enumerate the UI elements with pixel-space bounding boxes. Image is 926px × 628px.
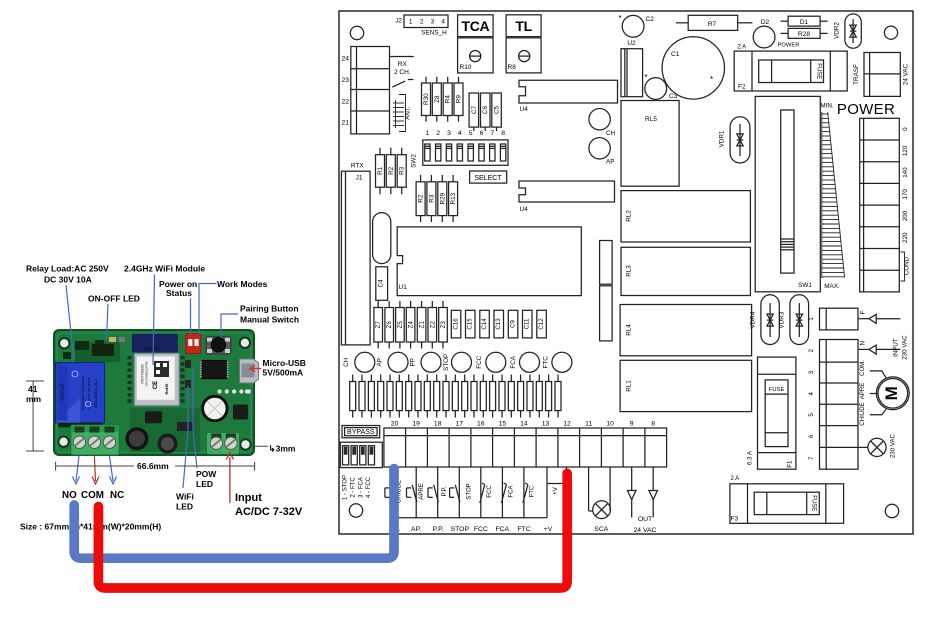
output terminals 2-7 (808, 340, 858, 470)
svg-text:2: 2 (420, 19, 424, 26)
svg-text:CH: CH (606, 130, 616, 137)
annotation input AC/DC (235, 492, 303, 518)
svg-text:4 - FCC: 4 - FCC (366, 476, 372, 498)
svg-text:ANT.: ANT. (405, 106, 412, 120)
svg-text:RL1: RL1 (626, 380, 633, 392)
svg-text:VDR1: VDR1 (719, 130, 726, 147)
motor M (859, 360, 909, 426)
DIP switch bypass 4 positions (340, 442, 382, 467)
svg-text:6.3 A: 6.3 A (747, 450, 754, 465)
annotation micro-usb (263, 358, 306, 378)
svg-text:R8: R8 (508, 64, 517, 71)
svg-text:10A 250VAC 10A 125VAC: 10A 250VAC 10A 125VAC (81, 375, 85, 411)
POWER title (837, 101, 895, 118)
svg-text:D1: D1 (800, 19, 809, 26)
diode D2 with POWER led label (753, 19, 799, 49)
IC U1 (397, 227, 581, 296)
svg-text:23: 23 (341, 77, 349, 84)
svg-text:COM.: COM. (859, 360, 866, 376)
terminal block NO COM NC (71, 425, 119, 455)
svg-text:R13: R13 (450, 192, 457, 204)
svg-text:APRE: APRE (418, 483, 425, 500)
svg-text:FUSE: FUSE (769, 387, 785, 393)
svg-text:AC/DC 7-32V: AC/DC 7-32V (235, 506, 303, 518)
svg-text:INPUT: INPUT (893, 338, 900, 357)
svg-text:FUSE: FUSE (811, 495, 817, 511)
svg-text:Z2: Z2 (429, 321, 436, 329)
PCB mounting holes (58, 338, 250, 450)
capacitor C2 (619, 14, 655, 37)
svg-text:22: 22 (341, 98, 349, 105)
varistor VDR4 (750, 295, 780, 345)
svg-text:Input: Input (235, 492, 262, 504)
svg-text:CE: CE (153, 381, 159, 389)
connector J2 SENS_H (395, 15, 448, 37)
svg-text:F3: F3 (731, 516, 739, 523)
svg-text:LED: LED (196, 479, 213, 489)
svg-text:8: 8 (651, 420, 655, 427)
svg-text:R28: R28 (798, 31, 810, 38)
svg-text:PP: PP (410, 358, 417, 366)
svg-text:6: 6 (480, 130, 484, 137)
svg-text:FTC: FTC (517, 526, 530, 533)
svg-text:11: 11 (585, 420, 592, 427)
svg-text:C16: C16 (453, 318, 460, 330)
mounting hole bottom-left (349, 504, 362, 517)
switch contact near RX (392, 80, 413, 88)
capacitors C16 C15 C14 C13 C9 C11 C12 (451, 310, 546, 338)
crystal oscillator (373, 213, 391, 264)
svg-text:↳3mm: ↳3mm (269, 444, 296, 454)
bottom terminal labels (389, 526, 553, 533)
svg-text:SELECT: SELECT (474, 175, 502, 182)
svg-text:Size : 67mm(L)*41mm(W)*20mm(H): Size : 67mm(L)*41mm(W)*20mm(H) (20, 522, 161, 532)
label SELECT (470, 171, 507, 183)
svg-text:230 VAC: 230 VAC (902, 335, 909, 360)
fuse F1 6.3A (747, 357, 796, 469)
svg-text:3 - FCA: 3 - FCA (358, 477, 364, 498)
relay RL1 (620, 360, 752, 411)
svg-text:APRE: APRE (859, 383, 866, 400)
svg-text:16: 16 (477, 420, 485, 427)
svg-text:Relay Load:AC 250V: Relay Load:AC 250V (26, 264, 109, 274)
varistor VDR3 (779, 295, 809, 345)
zener diodes Z7 Z6 Z5 Z4 Z1 Z2 Z3 (374, 301, 447, 349)
capacitor C3 (645, 78, 678, 100)
relay RL2 (621, 191, 750, 242)
lamp 230VAC (858, 433, 897, 458)
svg-text:C14: C14 (481, 318, 488, 330)
resistor R7 (676, 15, 753, 30)
svg-text:AP: AP (606, 159, 614, 166)
svg-text:R1: R1 (377, 166, 384, 175)
BYPASS label box (342, 426, 380, 438)
svg-text:D2: D2 (761, 19, 770, 26)
terminal block input (206, 432, 239, 454)
svg-text:RL5: RL5 (645, 116, 657, 123)
svg-text:5V/500mA: 5V/500mA (263, 368, 304, 378)
diode D1 (781, 16, 828, 26)
output terminal 1 (808, 308, 858, 330)
svg-text:2 CH.: 2 CH. (394, 69, 411, 76)
resistors R30 Z8 R4 R9 (422, 77, 464, 122)
annotation power on status (159, 279, 197, 298)
svg-text:7: 7 (490, 130, 494, 137)
svg-text:2.4GHz WiFi Module: 2.4GHz WiFi Module (124, 264, 205, 274)
svg-text:Status: Status (166, 288, 192, 298)
svg-text:C1: C1 (671, 51, 680, 58)
svg-text:TCA: TCA (461, 18, 489, 34)
capacitor C1 (645, 37, 725, 99)
svg-text:RL3: RL3 (626, 265, 633, 277)
arrow COM (92, 456, 99, 484)
components above relay (63, 340, 104, 359)
svg-text:Z5: Z5 (397, 321, 404, 329)
resistors R2 R3 R29 R13 (416, 175, 458, 222)
arrow NO (73, 456, 80, 484)
svg-text:F2: F2 (738, 84, 746, 91)
annotation work modes (217, 279, 268, 289)
svg-text:RTX: RTX (351, 163, 365, 170)
svg-text:3: 3 (808, 370, 815, 374)
svg-text:P.P.: P.P. (441, 486, 448, 496)
svg-text:C2: C2 (646, 16, 655, 23)
transformer connector TRASF 24VAC (853, 53, 910, 97)
svg-text:FUSE: FUSE (816, 63, 822, 79)
pairing pushbutton (206, 337, 231, 354)
INPUT 230 VAC label (893, 335, 909, 360)
svg-text:R10: R10 (460, 64, 472, 71)
svg-text:1: 1 (426, 130, 430, 137)
svg-text:SCA: SCA (594, 526, 608, 533)
svg-text:VDR4: VDR4 (750, 311, 757, 328)
svg-text:3: 3 (431, 19, 435, 26)
svg-text:CH: CH (343, 357, 350, 367)
svg-text:mm: mm (26, 394, 42, 404)
svg-text:220: 220 (902, 232, 909, 243)
svg-text:FTC: FTC (542, 356, 549, 369)
line N with arrow (859, 340, 901, 354)
svg-text:FCC: FCC (486, 485, 493, 498)
svg-text:Pairing Button: Pairing Button (240, 304, 299, 314)
mounting hole top-left (350, 26, 363, 39)
IC U4 upper (519, 80, 618, 113)
svg-text:4: 4 (441, 19, 445, 26)
small leds (92, 337, 191, 388)
relay RL5 (621, 101, 679, 187)
annotation 2.4GHz wifi module (124, 264, 205, 274)
svg-text:SW1: SW1 (798, 282, 812, 289)
terminal strip 20-8 (384, 428, 667, 467)
svg-text:R7: R7 (708, 21, 717, 28)
svg-text:18: 18 (434, 420, 442, 427)
svg-text:FCA: FCA (495, 526, 509, 533)
svg-text:+V: +V (552, 486, 559, 495)
svg-text:RL4: RL4 (626, 324, 633, 336)
svg-text:1: 1 (808, 317, 815, 321)
svg-text:C7: C7 (471, 105, 478, 114)
svg-text:C3: C3 (669, 93, 678, 100)
flat cable connector strip (350, 375, 561, 418)
size caption (20, 522, 161, 532)
svg-text:AP.: AP. (411, 526, 421, 533)
svg-text:VDR2: VDR2 (834, 22, 841, 39)
svg-text:COM: COM (81, 490, 104, 501)
svg-text:*: * (645, 73, 648, 82)
svg-text:NC: NC (110, 490, 124, 501)
svg-text:21: 21 (341, 120, 349, 127)
svg-text:SRD-05VDC-SL-C: SRD-05VDC-SL-C (94, 378, 98, 408)
dimension 3mm (249, 445, 268, 447)
wifi module with label (134, 354, 179, 406)
button AP (589, 138, 615, 166)
svg-text:2 - FTC: 2 - FTC (350, 477, 356, 498)
voltage selector terminal column 0-COND (860, 118, 911, 292)
mounting hole bottom-right (885, 504, 898, 517)
antenna trimmer ANT (393, 95, 412, 132)
svg-text:SONGLE: SONGLE (60, 383, 65, 401)
svg-text:C6: C6 (482, 105, 489, 114)
svg-text:S/N:2Y09010AT09: S/N:2Y09010AT09 (145, 361, 149, 386)
svg-text:66.6mm: 66.6mm (137, 461, 169, 471)
svg-text:FCA: FCA (508, 484, 515, 497)
svg-text:TYWE3S: TYWE3S (143, 347, 158, 351)
micro-usb connector (240, 359, 259, 383)
annotation ON-OFF LED (88, 294, 140, 304)
svg-text:R4: R4 (445, 95, 452, 104)
svg-text:24 VAC: 24 VAC (903, 63, 910, 85)
svg-text:STOP: STOP (443, 354, 450, 371)
svg-text:R2: R2 (388, 166, 395, 175)
svg-text:TL: TL (515, 18, 532, 34)
svg-text:C5: C5 (494, 105, 501, 114)
svg-text:170: 170 (902, 189, 909, 200)
svg-text:41: 41 (28, 384, 38, 394)
button CH (589, 109, 616, 138)
board outline (339, 11, 913, 534)
svg-text:*: * (619, 14, 622, 23)
connector RX 2CH block terminals 21-24 (341, 47, 413, 134)
svg-text:FCA: FCA (510, 355, 517, 368)
svg-text:Micro-USB: Micro-USB (263, 358, 306, 368)
svg-text:STOP: STOP (451, 526, 470, 533)
svg-text:SENS_H: SENS_H (421, 30, 447, 37)
svg-text:0: 0 (902, 127, 909, 131)
trimmer R10 with TCA label (458, 15, 494, 73)
svg-text:120: 120 (902, 145, 909, 156)
svg-text:U4: U4 (520, 206, 529, 213)
svg-text:9: 9 (630, 420, 634, 427)
svg-text:+V: +V (544, 526, 553, 533)
label SW2 (411, 154, 418, 168)
annotation pow led (196, 469, 217, 489)
svg-text:2 A: 2 A (731, 476, 740, 482)
relay pins shadow (58, 423, 103, 428)
annotation pairing button (240, 304, 299, 325)
module pin pads (128, 356, 185, 403)
svg-text:BYPASS: BYPASS (347, 429, 375, 436)
svg-text:R29: R29 (439, 192, 446, 204)
svg-text:20: 20 (391, 420, 399, 427)
svg-text:230 VAC: 230 VAC (890, 433, 897, 458)
svg-text:POWER: POWER (778, 43, 800, 49)
svg-text:1: 1 (409, 19, 413, 26)
svg-text:F1: F1 (787, 460, 794, 468)
svg-text:14: 14 (520, 420, 528, 427)
slide potentiometer SW1 (755, 96, 820, 291)
svg-text:Z7: Z7 (375, 321, 382, 329)
arrow NC (110, 456, 117, 484)
svg-text:FTC: FTC (529, 485, 536, 497)
trimmer R8 with TL label (506, 15, 541, 73)
svg-text:MAX.: MAX. (824, 283, 840, 290)
labels NO COM NC (62, 490, 124, 501)
power components bottom left (125, 405, 248, 454)
svg-text:FCC: FCC (476, 355, 483, 368)
svg-text:Z3: Z3 (440, 321, 447, 329)
svg-text:140: 140 (902, 167, 909, 178)
svg-text:12: 12 (563, 420, 571, 427)
pushbuttons CH AP PP STOP FCC FCA FTC (343, 352, 572, 372)
fuse F3 2A (730, 476, 844, 523)
annotation leader lines (66, 275, 238, 489)
svg-text:R3: R3 (399, 166, 406, 175)
bypass legend 1-STOP 2-FTC 3-FCA 4-FCC (342, 475, 372, 500)
line F with arrow (859, 310, 901, 323)
svg-text:2: 2 (436, 130, 440, 137)
arrow input (226, 453, 233, 504)
svg-text:MIN.: MIN. (820, 103, 834, 110)
IC U2 (621, 40, 643, 97)
svg-text:AP: AP (377, 358, 384, 366)
svg-text:C12: C12 (538, 318, 545, 330)
svg-text:FCC: FCC (474, 526, 488, 533)
header strip left of RL4 (600, 286, 613, 341)
main IC (200, 360, 229, 378)
svg-text:R3: R3 (428, 194, 435, 203)
resistor R28 (781, 28, 828, 38)
svg-text:CHIUDE: CHIUDE (859, 402, 866, 425)
svg-text:2: 2 (808, 349, 815, 353)
svg-text:DC 30V 10A: DC 30V 10A (44, 275, 92, 285)
svg-text:5: 5 (808, 413, 815, 417)
svg-text:C4: C4 (378, 279, 385, 288)
svg-text:ON-OFF LED: ON-OFF LED (88, 294, 140, 304)
svg-text:7: 7 (808, 456, 815, 460)
relay RL3 (621, 247, 750, 295)
svg-text:6: 6 (808, 434, 815, 438)
red dip switch work modes (186, 334, 201, 354)
relay RL4 (620, 305, 752, 356)
dimension 66.6mm (56, 462, 255, 471)
svg-text:1 - STOP: 1 - STOP (342, 475, 348, 500)
svg-text:*: * (710, 75, 713, 84)
svg-text:R9: R9 (456, 95, 463, 104)
svg-text:J2: J2 (395, 18, 402, 25)
potentiometer wedge MIN-MAX scale (820, 103, 844, 291)
svg-text:N: N (859, 340, 866, 345)
svg-text:OUT: OUT (638, 516, 652, 523)
svg-text:J1: J1 (356, 175, 363, 182)
OUT 24VAC terminals with diode arrows (627, 467, 657, 534)
IC U4 lower (519, 181, 615, 213)
svg-text:M: M (882, 386, 901, 400)
svg-text:2 A: 2 A (738, 45, 747, 51)
terminal numbers 20-8 (391, 420, 655, 427)
lamp SCA (589, 467, 611, 533)
svg-text:WiFi: WiFi (176, 492, 194, 502)
svg-text:5: 5 (469, 130, 473, 137)
svg-text:24 VAC: 24 VAC (634, 527, 657, 534)
svg-text:C15: C15 (467, 318, 474, 330)
capacitor C4 (376, 267, 388, 301)
svg-text:10: 10 (606, 420, 614, 427)
svg-text:C11: C11 (524, 318, 531, 329)
annotation relay load (26, 264, 109, 285)
svg-text:U2: U2 (627, 40, 636, 47)
svg-text:U4: U4 (520, 106, 529, 113)
svg-text:U1: U1 (399, 284, 408, 291)
svg-text:4: 4 (458, 130, 462, 137)
svg-text:Work Modes: Work Modes (217, 279, 268, 289)
svg-text:4: 4 (808, 392, 815, 396)
svg-text:C9: C9 (510, 319, 517, 327)
svg-text:RX: RX (398, 61, 408, 68)
svg-text:POWER: POWER (837, 101, 895, 118)
svg-text:P.P.: P.P. (433, 526, 444, 533)
svg-text:17: 17 (456, 420, 464, 427)
svg-text:24: 24 (341, 56, 349, 63)
svg-text:RoHS: RoHS (164, 383, 169, 394)
svg-text:R30: R30 (423, 93, 430, 105)
arrow micro-usb (250, 366, 261, 372)
relay module PCB photo (54, 330, 254, 455)
svg-text:Manual Switch: Manual Switch (240, 315, 299, 325)
svg-text:13: 13 (542, 420, 550, 427)
capacitors C7 C6 C5 (469, 93, 501, 131)
svg-text:RL2: RL2 (626, 210, 633, 222)
electrolytic capacitor big (201, 395, 229, 423)
svg-text:F: F (859, 310, 866, 314)
svg-text:NO: NO (62, 490, 77, 501)
svg-text:Z8: Z8 (434, 95, 441, 103)
connector RTX J1 (341, 163, 370, 345)
svg-text:15: 15 (499, 420, 507, 427)
svg-text:R2: R2 (418, 194, 425, 203)
svg-text:19: 19 (412, 420, 420, 427)
DIP switch SW2 8 positions (423, 130, 508, 165)
svg-text:POW: POW (196, 469, 217, 479)
svg-text:TRASF: TRASF (853, 64, 860, 85)
svg-text:SW2: SW2 (411, 154, 418, 168)
rotated input labels CHIUDE APRE PP STOP FCC FCA FTC (396, 480, 536, 503)
fuse F2 2A (734, 45, 847, 92)
svg-text:3: 3 (447, 130, 451, 137)
via dots (217, 389, 250, 393)
svg-text:Z6: Z6 (386, 321, 393, 329)
svg-text:Z4: Z4 (408, 321, 415, 329)
wire red COM to terminal 12 (98, 473, 567, 588)
resistors R1 R2 R3 (376, 148, 407, 195)
+V terminal connection (547, 467, 567, 518)
header strip left of RL3 (600, 241, 613, 285)
blue relay (56, 363, 105, 423)
annotation wifi led (176, 492, 194, 512)
svg-text:8: 8 (501, 130, 505, 137)
svg-text:VDR3: VDR3 (779, 311, 786, 328)
svg-text:STOP: STOP (466, 483, 473, 499)
varistor VDR1 (719, 117, 750, 163)
